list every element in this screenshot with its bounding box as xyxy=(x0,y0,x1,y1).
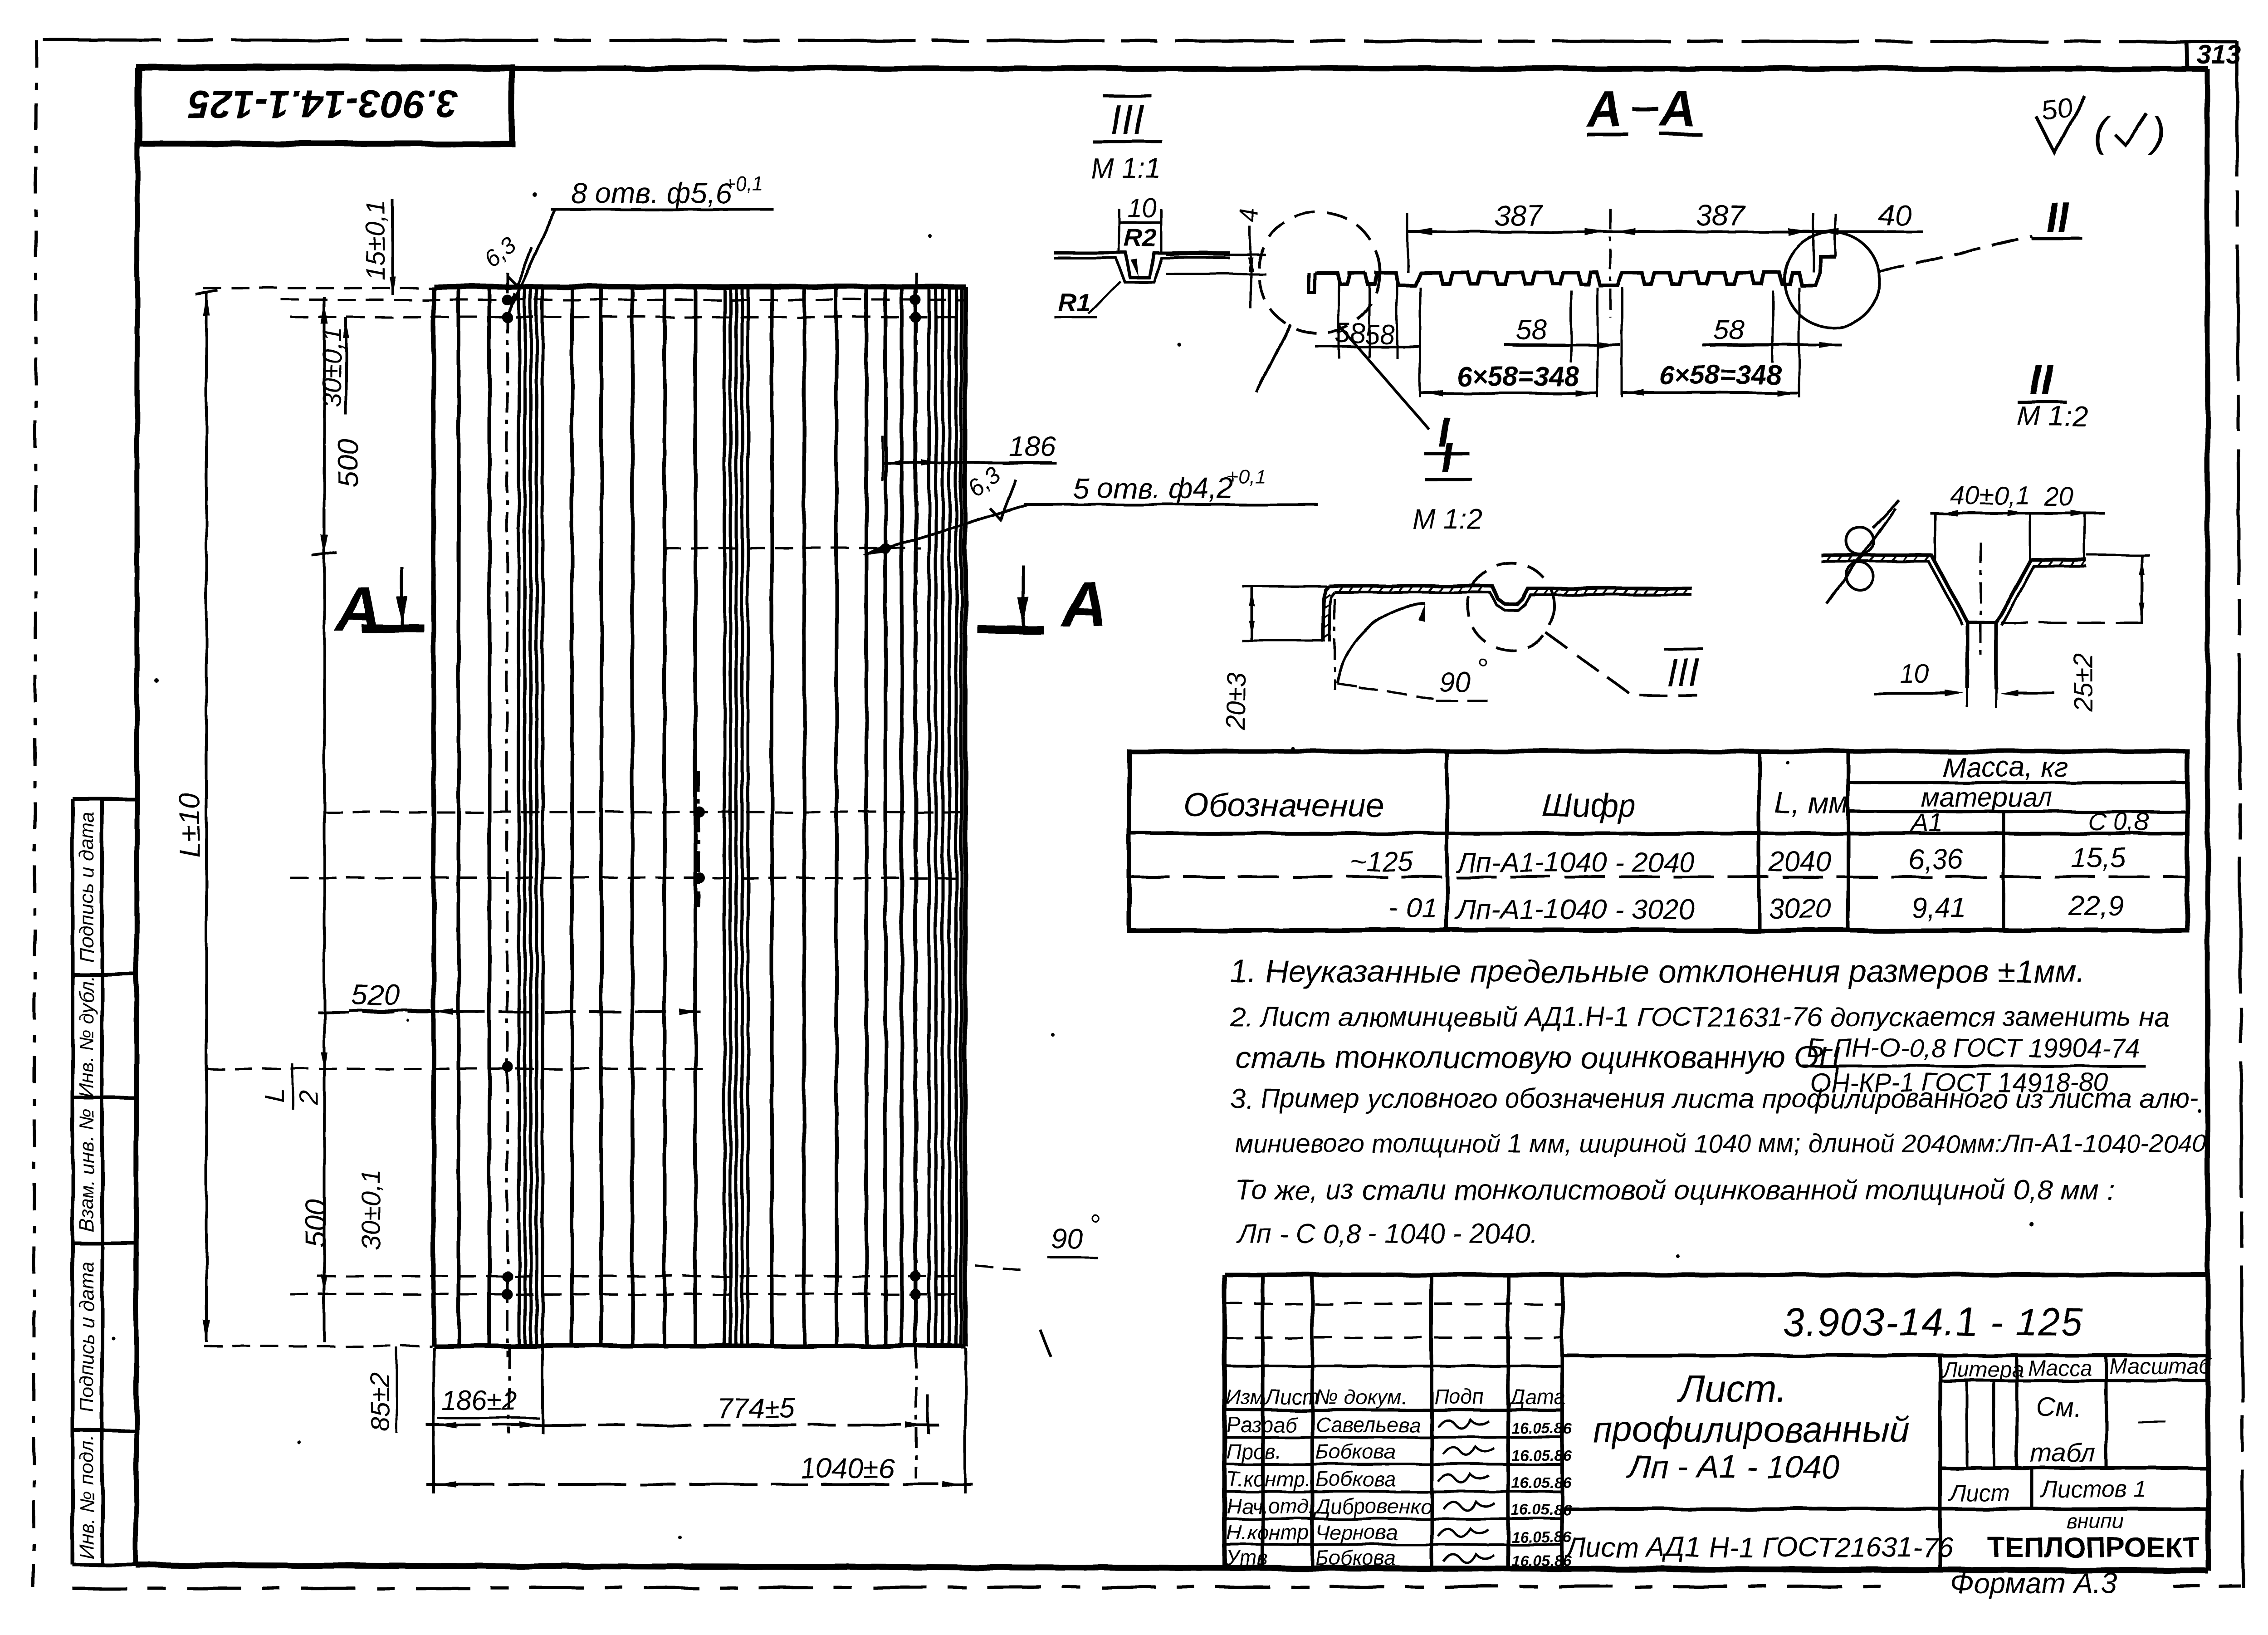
svg-text:16.05.86: 16.05.86 xyxy=(1511,1529,1572,1546)
svg-text:16.05.86: 16.05.86 xyxy=(1511,1474,1572,1492)
svg-text:50: 50 xyxy=(2039,91,2074,127)
svg-text:2. Лист алюминцевый АД1.Н-1: 2. Лист алюминцевый АД1.Н-1 ГОСТ21631-76… xyxy=(1230,1002,2169,1032)
svg-text:Формат А.3: Формат А.3 xyxy=(1950,1567,2117,1600)
svg-text:15±0,1: 15±0,1 xyxy=(361,200,391,280)
svg-text:Литера: Литера xyxy=(1941,1358,2024,1382)
svg-text:58: 58 xyxy=(1713,314,1745,346)
svg-text:Бобкова: Бобкова xyxy=(1315,1546,1396,1570)
svg-text:R1: R1 xyxy=(1058,288,1091,317)
svg-text:500: 500 xyxy=(299,1199,332,1248)
svg-text:Б-ПН-О-0,8 ГОСТ 19904-74: Б-ПН-О-0,8 ГОСТ 19904-74 xyxy=(1807,1033,2140,1063)
svg-text:°: ° xyxy=(1476,653,1488,685)
roughness 50 with check xyxy=(2037,91,2165,155)
plan view: hole axes (dash-dot) xyxy=(507,272,916,1356)
dim 15±0,1 xyxy=(361,200,396,295)
svg-text:9,41: 9,41 xyxy=(1911,892,1966,924)
svg-text:С 0,8: С 0,8 xyxy=(2088,807,2149,836)
svg-text:387: 387 xyxy=(1696,199,1745,232)
svg-text:I: I xyxy=(1441,435,1453,481)
svg-text:II: II xyxy=(2045,194,2070,240)
svg-text:Масштаб: Масштаб xyxy=(2109,1355,2212,1379)
svg-text:5 отв. ф4,2: 5 отв. ф4,2 xyxy=(1073,472,1233,504)
svg-text:520: 520 xyxy=(352,979,400,1011)
detail circle III on detail I xyxy=(1467,563,1697,695)
leader: 8 holes dia 5,6 xyxy=(508,173,774,313)
svg-text:58: 58 xyxy=(1516,314,1547,346)
title block outline xyxy=(1225,1275,2208,1570)
svg-text:90: 90 xyxy=(1439,667,1471,698)
signature squiggles xyxy=(1438,1420,1494,1563)
svg-text:R2: R2 xyxy=(1124,223,1157,252)
svg-text:Инв. № подл.: Инв. № подл. xyxy=(76,1435,98,1559)
roughness 6,3 at top leader xyxy=(479,232,532,286)
svg-text:Обозначение: Обозначение xyxy=(1184,788,1384,824)
svg-text:Н.контр: Н.контр xyxy=(1227,1521,1309,1544)
svg-text:+0,1: +0,1 xyxy=(724,173,763,195)
svg-text:M 1:2: M 1:2 xyxy=(1412,504,1482,535)
svg-text:M 1:1: M 1:1 xyxy=(1090,153,1161,184)
svg-text:1040±6: 1040±6 xyxy=(801,1453,894,1484)
leader: 5 holes dia 4,2 xyxy=(862,466,1318,555)
svg-text:1. Неуказанные предельные от: 1. Неуказанные предельные отклонения раз… xyxy=(1230,954,2086,989)
svg-text:Т.контр.: Т.контр. xyxy=(1227,1467,1311,1491)
svg-text:30±0,1: 30±0,1 xyxy=(318,327,347,407)
A-A dim 58 right xyxy=(1702,290,1842,363)
name section xyxy=(1564,1367,1954,1563)
svg-text:20±3: 20±3 xyxy=(1222,672,1251,731)
svg-text:8 отв. ф5,6: 8 отв. ф5,6 xyxy=(571,177,732,210)
svg-text:Лп - С 0,8 - 1040 - 2040.: Лп - С 0,8 - 1040 - 2040. xyxy=(1236,1219,1538,1249)
svg-text:Лп - А1 - 1040: Лп - А1 - 1040 xyxy=(1626,1449,1839,1485)
svg-text:Подп: Подп xyxy=(1434,1385,1484,1409)
svg-text:500: 500 xyxy=(332,439,365,488)
page number 313 xyxy=(2186,40,2241,69)
svg-text:186: 186 xyxy=(1009,431,1056,462)
plan view: holes xyxy=(502,294,921,1300)
svg-text:16.05.86: 16.05.86 xyxy=(1511,1420,1572,1437)
dim 1040±6 xyxy=(426,1453,973,1488)
dim 85±2 xyxy=(366,1347,397,1434)
crossed roughness symbol (detail II) xyxy=(1827,500,1899,604)
A-A dims 387 387 40 xyxy=(1408,199,1923,318)
svg-text:Бобкова: Бобкова xyxy=(1315,1440,1396,1464)
label III (callout on detail I) xyxy=(1664,649,1703,695)
svg-text:40: 40 xyxy=(1879,199,1911,232)
svg-text:То же, из стали тонколистовой: То же, из стали тонколистовой оцинкованн… xyxy=(1235,1175,2115,1206)
left margin column boxes xyxy=(73,799,136,1565)
svg-text:миниевого толщиной 1 мм, ширин: миниевого толщиной 1 мм, шириной 1040 мм… xyxy=(1235,1129,2207,1158)
svg-text:2: 2 xyxy=(294,1090,323,1105)
A-A profile drawing xyxy=(1309,256,1835,293)
label II right of A-A xyxy=(2031,194,2082,240)
svg-text:Бобкова: Бобкова xyxy=(1315,1467,1396,1491)
svg-text:профилированный: профилированный xyxy=(1593,1409,1910,1449)
svg-text:№ докум.: № докум. xyxy=(1315,1385,1408,1409)
plan view: profile single lines xyxy=(459,288,915,1345)
svg-text:Чернова: Чернова xyxy=(1315,1521,1398,1544)
svg-text:А: А xyxy=(1659,81,1696,137)
svg-text:3.903-14.1 - 125: 3.903-14.1 - 125 xyxy=(1783,1301,2083,1344)
svg-text:- 01: - 01 xyxy=(1389,892,1437,924)
svg-text:Изм: Изм xyxy=(1226,1385,1264,1409)
plan view: hole row center lines xyxy=(203,288,965,1346)
svg-text:2040: 2040 xyxy=(1768,846,1831,877)
scan speckles xyxy=(112,193,2202,1540)
detail I drawing xyxy=(1222,586,1692,731)
svg-text:Савельева: Савельева xyxy=(1315,1413,1420,1436)
svg-text:III: III xyxy=(1666,650,1699,695)
detail circle II on A-A xyxy=(1784,232,2032,328)
svg-text:6,36: 6,36 xyxy=(1909,844,1964,876)
svg-text:—: — xyxy=(2137,1404,2166,1435)
svg-text:10: 10 xyxy=(1127,193,1157,223)
svg-text:Лист АД1 Н-1 ГОСТ21631-76: Лист АД1 Н-1 ГОСТ21631-76 xyxy=(1564,1532,1954,1563)
roughness 6,3 at leader xyxy=(963,461,1016,520)
dim L±10 xyxy=(173,290,218,1342)
svg-text:16.05.86: 16.05.86 xyxy=(1511,1552,1572,1570)
section marker A right xyxy=(978,565,1107,640)
svg-text:+0,1: +0,1 xyxy=(1227,466,1266,488)
svg-text:А: А xyxy=(334,574,381,645)
detail II drawing xyxy=(1821,481,2150,712)
detail circle I on A-A xyxy=(1256,212,1380,392)
svg-text:Подпись и дата: Подпись и дата xyxy=(76,812,98,963)
svg-text:85±2: 85±2 xyxy=(366,1373,395,1431)
svg-text:Лист.: Лист. xyxy=(1677,1367,1787,1410)
svg-text:Лист: Лист xyxy=(1264,1385,1319,1409)
svg-text:90: 90 xyxy=(1051,1224,1083,1255)
svg-text:Масса: Масса xyxy=(2028,1356,2092,1380)
svg-text:L, мм: L, мм xyxy=(1774,786,1849,819)
plan view: rib line clusters xyxy=(519,288,961,1345)
svg-text:табл: табл xyxy=(2030,1438,2095,1468)
svg-text:L±10: L±10 xyxy=(173,793,206,857)
svg-text:40±0,1: 40±0,1 xyxy=(1950,481,2030,510)
dim line x=715 (500 / L/2 / 500) xyxy=(312,297,365,1342)
svg-text:Лп-А1-1040 - 3020: Лп-А1-1040 - 3020 xyxy=(1455,894,1695,925)
svg-text:См.: См. xyxy=(2037,1393,2081,1422)
svg-text:30±0,1: 30±0,1 xyxy=(357,1170,386,1250)
bottom extension lines xyxy=(434,1347,965,1493)
svg-text:L: L xyxy=(260,1088,289,1102)
svg-text:58: 58 xyxy=(1364,319,1395,350)
detail III drawing xyxy=(1054,193,1266,318)
svg-text:Инв. № дубл.: Инв. № дубл. xyxy=(76,975,98,1098)
svg-text:II: II xyxy=(2029,357,2054,403)
svg-text:А1: А1 xyxy=(1910,808,1943,837)
label I with M1:2 xyxy=(1412,435,1482,535)
svg-text:6×58=348: 6×58=348 xyxy=(1457,361,1579,392)
svg-text:20: 20 xyxy=(2043,482,2073,511)
plan view: sheet outline xyxy=(434,287,965,1346)
svg-text:Дибровенко: Дибровенко xyxy=(1313,1494,1432,1518)
svg-text:186±2: 186±2 xyxy=(441,1385,517,1416)
svg-text:6×58=348: 6×58=348 xyxy=(1659,360,1782,390)
svg-text:25±2: 25±2 xyxy=(2068,653,2098,712)
svg-text:Лп-А1-1040 - 2040: Лп-А1-1040 - 2040 xyxy=(1455,847,1695,878)
signature rows xyxy=(1226,1413,1432,1570)
svg-text:387: 387 xyxy=(1494,199,1544,232)
svg-text:Листов 1: Листов 1 xyxy=(2040,1476,2147,1503)
svg-text:3. Пример условного обозначе: 3. Пример условного обозначения листа пр… xyxy=(1230,1083,2200,1114)
svg-text:16.05.86: 16.05.86 xyxy=(1511,1447,1572,1464)
svg-text:°: ° xyxy=(1089,1209,1100,1240)
label L/2 xyxy=(260,1064,323,1109)
revision header texts xyxy=(1226,1385,1565,1409)
label II / M1:2 (title) xyxy=(2017,357,2087,432)
A-A dims 6x58=348 xyxy=(1420,287,1799,397)
svg-text:M 1:2: M 1:2 xyxy=(2017,401,2087,432)
svg-text:Шифр: Шифр xyxy=(1542,788,1636,824)
svg-text:4: 4 xyxy=(1235,209,1264,223)
section title A-A xyxy=(1585,81,1702,137)
svg-text:Дата: Дата xyxy=(1508,1385,1565,1409)
svg-text:~125: ~125 xyxy=(1350,846,1413,877)
dim 520 xyxy=(318,979,701,1015)
svg-text:Нач.отд.: Нач.отд. xyxy=(1227,1494,1315,1518)
dim 186 (top right of sheet) xyxy=(882,431,1057,481)
svg-text:22,9: 22,9 xyxy=(2068,891,2124,922)
note 90 deg xyxy=(975,1209,1100,1356)
label III with M1:1 xyxy=(1090,96,1162,184)
svg-text:сталь тонколистовую оцинкованн: сталь тонколистовую оцинкованную ОЦ xyxy=(1235,1040,1841,1075)
svg-text:Утв: Утв xyxy=(1226,1546,1268,1570)
date scribbles xyxy=(1511,1420,1572,1570)
svg-text:10: 10 xyxy=(1900,659,1929,689)
svg-text:ТЕПЛОПРОЕКТ: ТЕПЛОПРОЕКТ xyxy=(1988,1532,2200,1563)
svg-text:Взам. инв. №: Взам. инв. № xyxy=(76,1109,98,1232)
title block right section xyxy=(1562,1355,2212,1570)
svg-text:58: 58 xyxy=(1335,318,1365,348)
A-A dim 58 mid xyxy=(1505,290,1620,363)
svg-text:3.903-14.1-125: 3.903-14.1-125 xyxy=(187,82,459,126)
table: spec table xyxy=(1129,751,2187,930)
svg-text:Разраб: Разраб xyxy=(1227,1413,1297,1436)
svg-text:III: III xyxy=(1110,97,1145,143)
svg-text:313: 313 xyxy=(2197,40,2241,69)
section marker A left xyxy=(334,567,424,645)
title block revision rows xyxy=(1225,1304,1562,1545)
dim 30±0,1 top xyxy=(318,318,349,415)
svg-text:Подпись и дата: Подпись и дата xyxy=(76,1262,98,1413)
svg-text:внипи: внипи xyxy=(2066,1509,2123,1532)
svg-text:А: А xyxy=(1585,81,1623,137)
svg-text:Пров.: Пров. xyxy=(1227,1440,1281,1464)
notes text block xyxy=(1230,954,2207,1249)
A-A dims 58 58 row xyxy=(1315,284,1420,358)
svg-text:3020: 3020 xyxy=(1769,893,1831,925)
svg-text:15,5: 15,5 xyxy=(2071,842,2126,874)
top-left stamp box xyxy=(139,67,512,144)
svg-text:774±5: 774±5 xyxy=(717,1393,795,1424)
label I under A-A xyxy=(1339,326,1470,456)
svg-text:А: А xyxy=(1060,568,1107,640)
dim 186±2 / 774±5 xyxy=(426,1385,939,1428)
table texts xyxy=(1184,752,2149,925)
svg-text:Лист: Лист xyxy=(1948,1480,2010,1506)
svg-text:Масса, кг: Масса, кг xyxy=(1942,752,2068,783)
